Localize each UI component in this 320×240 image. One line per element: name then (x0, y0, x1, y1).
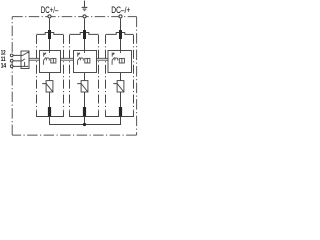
svg-text:14: 14 (1, 62, 7, 69)
svg-text:DC–/+: DC–/+ (111, 5, 130, 15)
svg-text:DC+/–: DC+/– (41, 5, 59, 15)
